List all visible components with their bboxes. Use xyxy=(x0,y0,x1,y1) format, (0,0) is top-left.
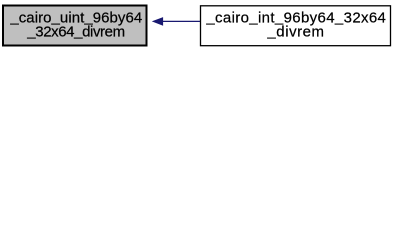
arrowhead xyxy=(153,18,162,25)
svg-text:_divrem: _divrem xyxy=(266,23,324,41)
edge arrow (caller -> callee), midnightblue xyxy=(153,18,200,25)
node _cairo_uint_96by64_32x64_divrem (current, grey) xyxy=(3,6,147,46)
svg-text:_32x64_divrem: _32x64_divrem xyxy=(26,22,124,40)
node _cairo_int_96by64_32x64_divrem (caller, white) xyxy=(201,6,391,46)
wire xyxy=(162,20,200,22)
